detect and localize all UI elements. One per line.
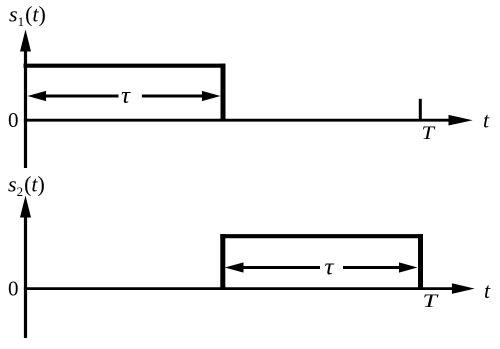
svg-text:τ: τ (325, 254, 335, 280)
pulse s1 right edge (221, 64, 226, 121)
x-axis (top plot) (24, 115, 473, 126)
x-axis (bottom plot) (24, 283, 475, 294)
pulse s2 left edge (220, 234, 225, 289)
tau arrow left (bottom plot) (225, 262, 320, 272)
y-axis (top plot) (20, 30, 31, 169)
tau arrow right (top plot) (142, 91, 221, 101)
svg-text:t: t (484, 278, 491, 303)
svg-text:s2(t): s2(t) (8, 172, 45, 200)
svg-text:t: t (483, 108, 490, 133)
svg-text:T: T (423, 291, 439, 312)
pulse s2 top edge (220, 234, 423, 238)
pulse s1 top edge (24, 64, 226, 68)
y-axis (bottom plot) (20, 196, 31, 339)
svg-text:0: 0 (8, 277, 19, 301)
svg-text:T: T (422, 123, 436, 144)
tau arrow left (top plot) (28, 91, 119, 101)
svg-text:0: 0 (8, 108, 19, 132)
tau arrow right (bottom plot) (343, 262, 418, 272)
svg-text:s1(t): s1(t) (9, 2, 46, 30)
svg-text:τ: τ (121, 83, 131, 109)
pulse s2 right edge (418, 234, 423, 289)
tick T (top plot) (419, 99, 422, 120)
